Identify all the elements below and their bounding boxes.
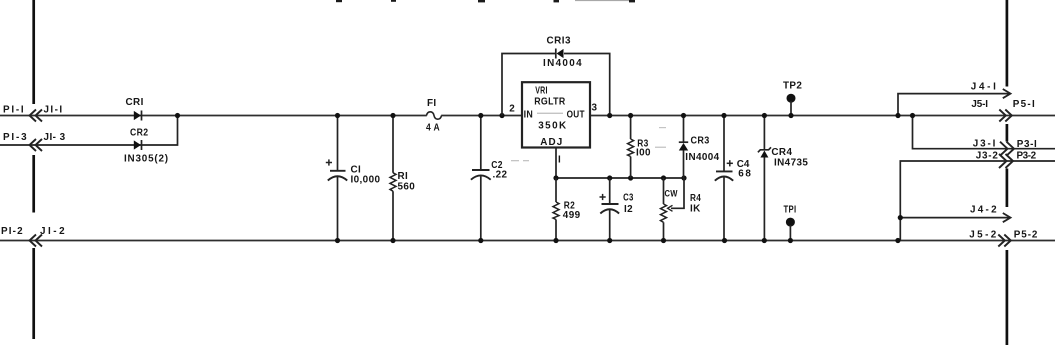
- svg-text:IK: IK: [690, 204, 701, 215]
- svg-text:IN4004: IN4004: [685, 152, 719, 163]
- svg-text:FI: FI: [427, 98, 437, 109]
- fuse F1: [427, 112, 442, 119]
- node pin2 junction: [499, 113, 504, 118]
- svg-text:IN4004: IN4004: [543, 58, 582, 69]
- capacitor C2: [471, 116, 491, 241]
- connector J5-2/P5-2 chevrons: [998, 235, 1011, 247]
- svg-text:JI-I: JI-I: [44, 105, 63, 116]
- svg-text:J4-2: J4-2: [970, 204, 997, 215]
- diode CR3: [679, 116, 688, 179]
- svg-text:PI-2: PI-2: [1, 226, 23, 237]
- svg-text:C3: C3: [623, 193, 634, 204]
- node pin3 junction: [607, 113, 612, 118]
- svg-text:J3-I: J3-I: [973, 139, 996, 150]
- svg-text:.22: .22: [493, 170, 508, 181]
- svg-text:TPI: TPI: [784, 204, 797, 215]
- svg-text:J5-I: J5-I: [971, 99, 988, 110]
- connector PI-3/JI-3 chevrons: [30, 139, 43, 151]
- svg-text:J5-2: J5-2: [969, 229, 997, 240]
- connector PI-1/JI-1 chevrons: [30, 110, 43, 122]
- svg-text:IN: IN: [524, 110, 534, 121]
- svg-text:PI-I: PI-I: [3, 105, 24, 116]
- svg-text:VRI: VRI: [535, 86, 548, 97]
- svg-text:2: 2: [509, 104, 515, 115]
- connector J4-1 arrow: [1003, 89, 1011, 98]
- svg-text:560: 560: [398, 181, 416, 192]
- svg-text:CR3: CR3: [691, 135, 710, 146]
- resistor R2: [553, 178, 559, 241]
- left page border: [32, 0, 35, 339]
- connector J4-2 arrow: [1003, 213, 1011, 222]
- svg-text:I2: I2: [624, 204, 633, 215]
- svg-text:J4-I: J4-I: [971, 82, 997, 93]
- svg-text:499: 499: [563, 210, 581, 221]
- svg-text:P3-I: P3-I: [1017, 139, 1037, 150]
- svg-text:JI- 3: JI- 3: [44, 132, 66, 143]
- svg-text:I00: I00: [636, 147, 651, 158]
- connector PI-2/JI-2 chevrons: [30, 235, 43, 247]
- diode CR13: [556, 49, 564, 59]
- right page border: [1006, 0, 1009, 345]
- svg-text:3: 3: [592, 103, 598, 114]
- svg-text:JI-2: JI-2: [40, 226, 65, 237]
- svg-text:4 A: 4 A: [426, 123, 440, 134]
- svg-text:I0,000: I0,000: [351, 175, 381, 186]
- svg-text:350K: 350K: [538, 121, 567, 132]
- connector J3-1/P3-1 chevrons: [1000, 142, 1014, 156]
- svg-text:P5-I: P5-I: [1013, 99, 1035, 110]
- diode CR2: [134, 140, 142, 150]
- resistor R1: [390, 116, 396, 241]
- wire J4-1 branch: [898, 94, 1009, 116]
- svg-text:TP2: TP2: [783, 81, 802, 92]
- test point TP2: [787, 94, 796, 116]
- capacitor C4: [715, 116, 733, 241]
- wire mid rail: [556, 177, 684, 179]
- svg-text:IN305(2): IN305(2): [124, 154, 169, 165]
- svg-text:PI-3: PI-3: [3, 132, 27, 143]
- capacitor C1: [326, 116, 347, 241]
- wire top rail (right of VR1): [590, 115, 1055, 117]
- wire top rail (left of fuse): [0, 115, 427, 117]
- svg-text:J3-2: J3-2: [976, 151, 999, 162]
- svg-text:CW: CW: [665, 189, 678, 199]
- test point TP1: [786, 218, 795, 241]
- wire top rail (fuse to VR1): [441, 115, 522, 117]
- svg-text:IN4735: IN4735: [774, 158, 808, 169]
- wire J3-2 branch: [900, 161, 1055, 241]
- svg-text:R4: R4: [690, 193, 701, 204]
- svg-text:68: 68: [738, 168, 751, 179]
- svg-text:P5-2: P5-2: [1014, 229, 1038, 240]
- connector J5-1/P5-1 chevrons: [999, 110, 1012, 122]
- capacitor C3: [600, 178, 620, 241]
- svg-text:CRI: CRI: [126, 97, 144, 108]
- wire pin1 ADJ: [555, 148, 557, 179]
- cropped title text remnants at top: [336, 0, 635, 2]
- wire R4 wiper: [671, 178, 684, 208]
- resistor R3: [628, 116, 634, 179]
- svg-text:CR4: CR4: [771, 147, 792, 158]
- zener diode CR4: [758, 116, 771, 241]
- wire PI-3 / JI-3 line: [0, 116, 178, 146]
- node junction CR2 join: [175, 113, 180, 118]
- svg-text:RGLTR: RGLTR: [534, 97, 565, 108]
- svg-text:CRI3: CRI3: [547, 36, 571, 47]
- svg-text:P3-2: P3-2: [1017, 151, 1037, 162]
- svg-text:OUT: OUT: [567, 110, 585, 121]
- op-amp VR1 regulator box: [522, 82, 590, 147]
- wire CR13 loop: [502, 54, 556, 116]
- wire J3-1 branch: [913, 116, 1055, 149]
- connector J3-2/P3-2 chevrons: [999, 154, 1013, 168]
- svg-text:I: I: [558, 155, 561, 166]
- svg-text:CR2: CR2: [130, 128, 148, 139]
- diode CR1: [134, 111, 142, 121]
- wire bottom rail: [0, 240, 1055, 242]
- potentiometer R4: [661, 178, 685, 241]
- svg-text:ADJ: ADJ: [540, 137, 562, 148]
- faint scan artifacts: [511, 113, 666, 162]
- wire J4-2 branch: [900, 217, 1009, 219]
